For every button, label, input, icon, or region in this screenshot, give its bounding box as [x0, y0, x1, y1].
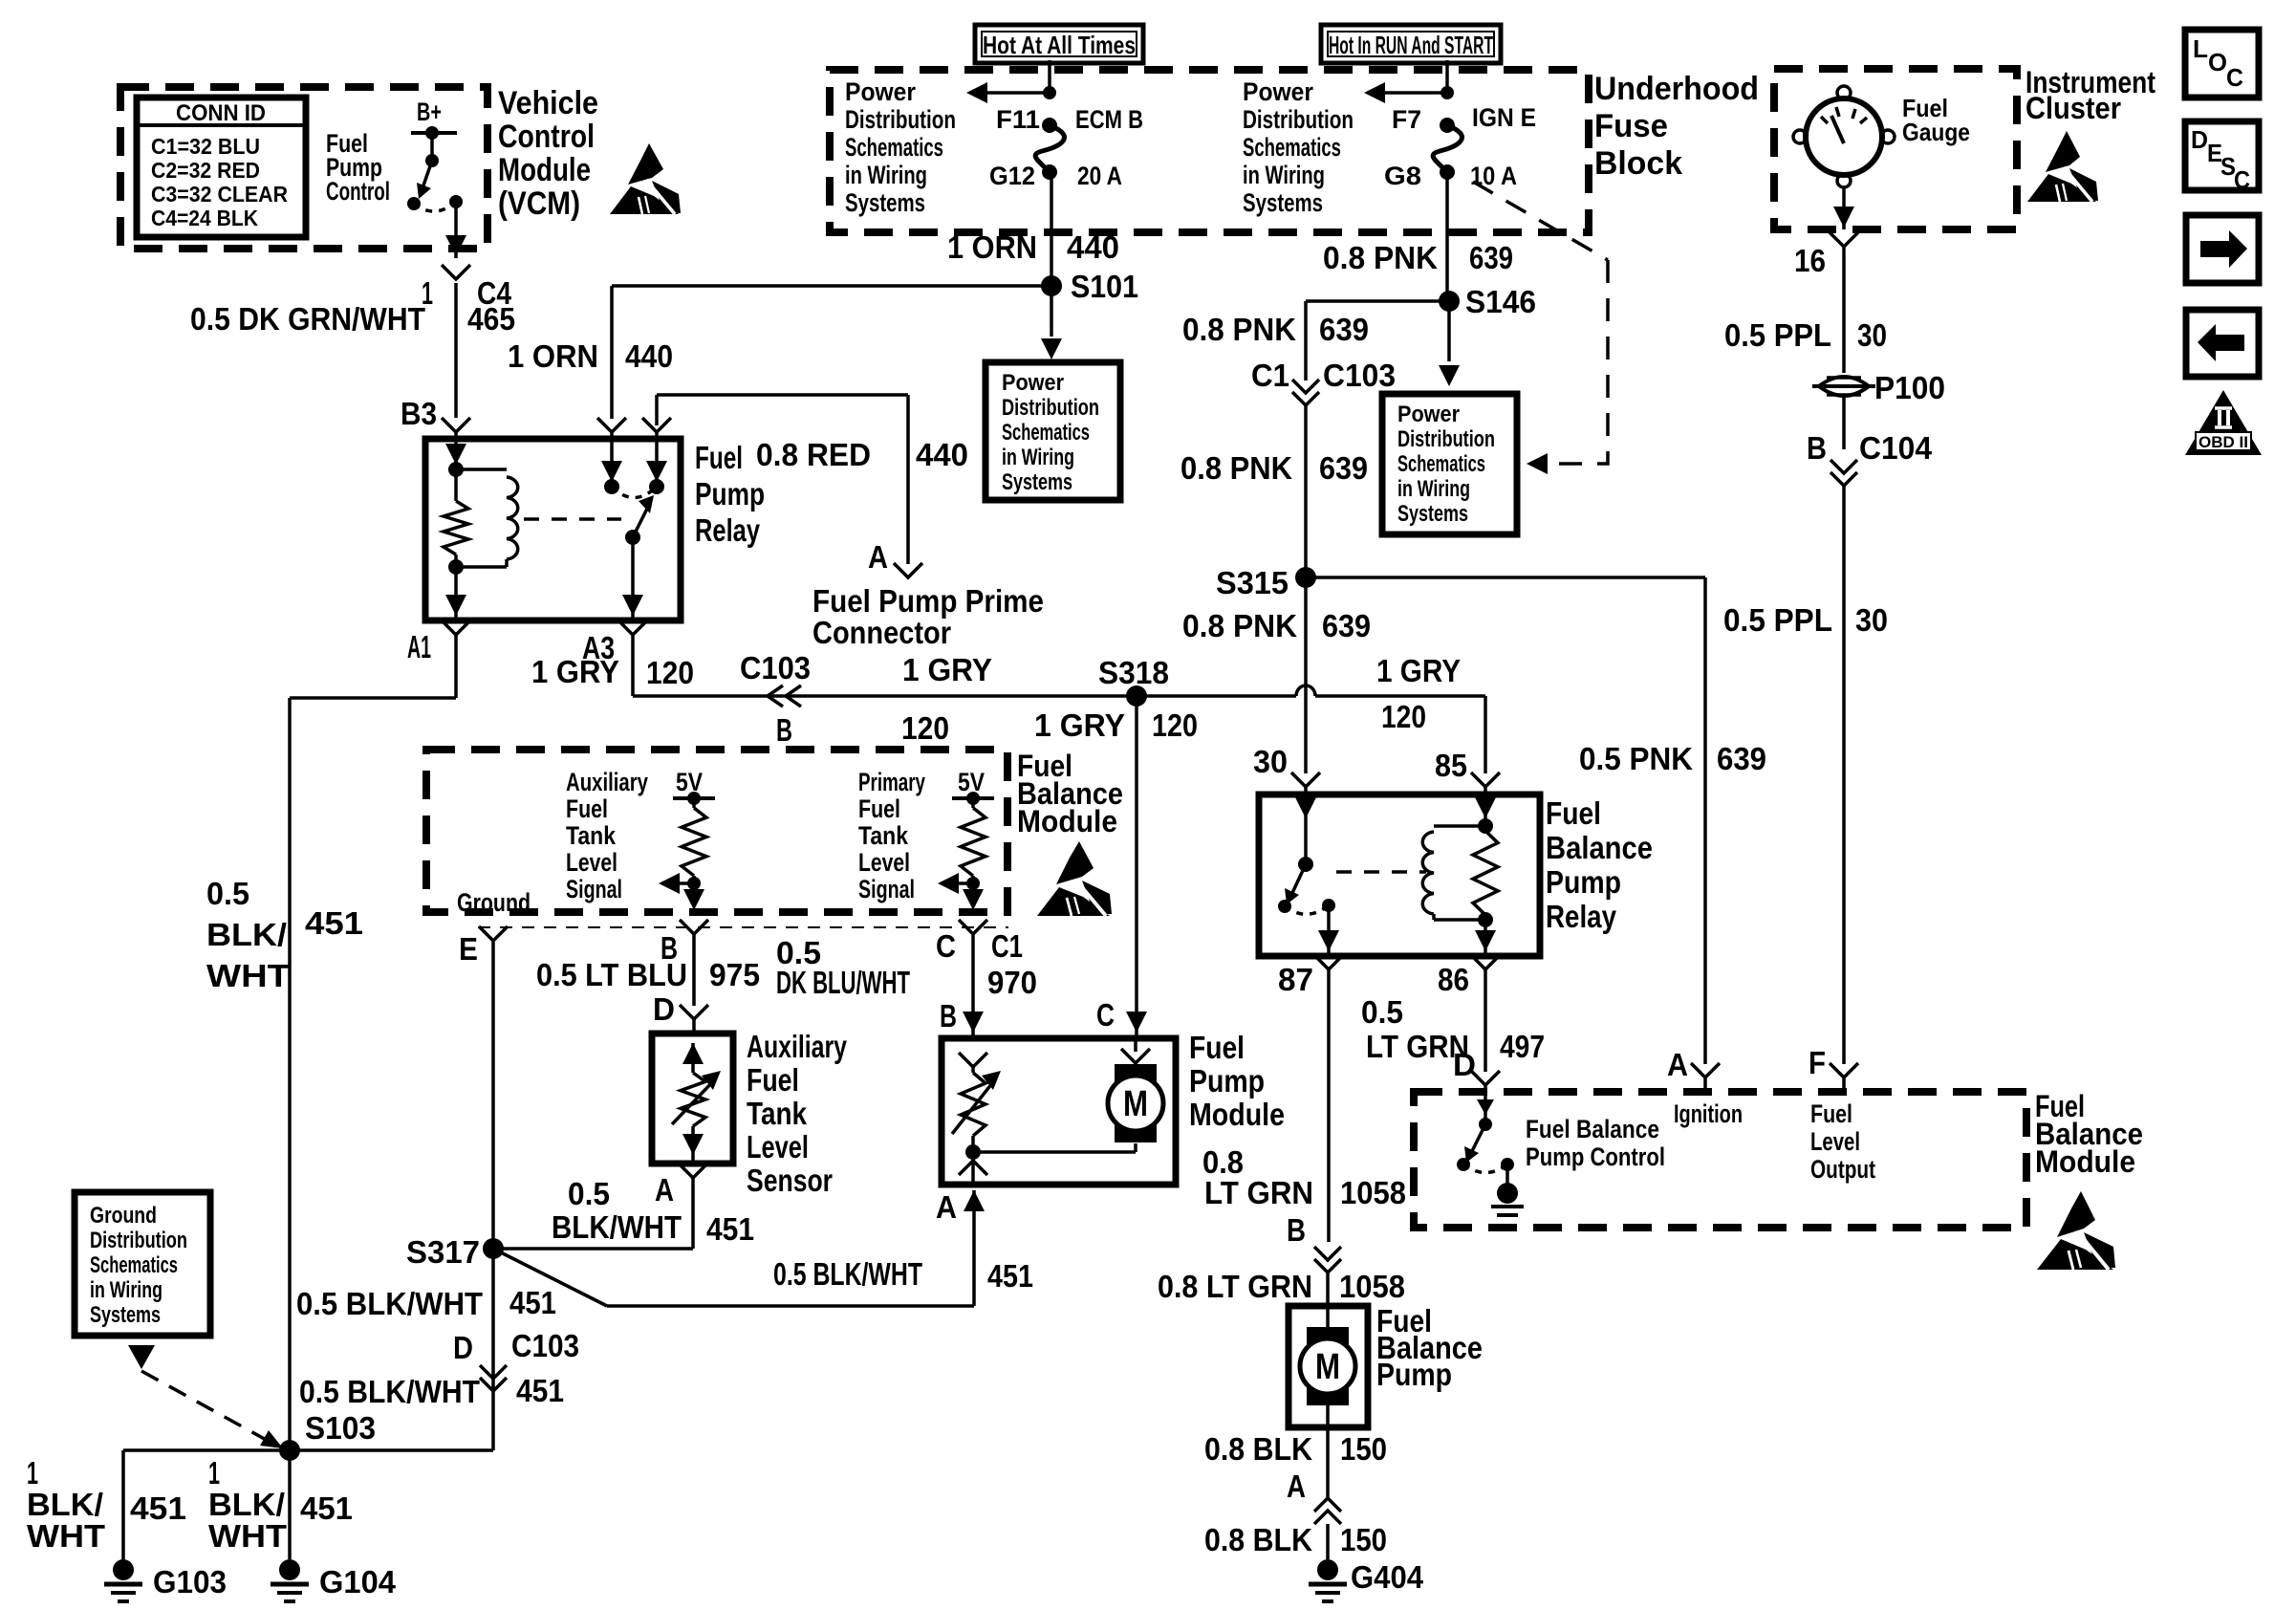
- fbp relay dashed link: [1336, 870, 1426, 874]
- wire label 1 BLK/WHT 451 (G103): [27, 1455, 186, 1554]
- wire label 0.8 PNK 639 (upper): [1182, 312, 1369, 347]
- svg-text:Tank: Tank: [566, 821, 617, 850]
- svg-text:Auxiliary: Auxiliary: [747, 1029, 847, 1064]
- svg-text:B: B: [1807, 430, 1827, 466]
- svg-text:BLK/: BLK/: [206, 917, 287, 952]
- inline connector C103 chevrons: [768, 685, 801, 707]
- svg-text:Distribution: Distribution: [1243, 105, 1354, 134]
- svg-text:1 ORN: 1 ORN: [508, 338, 598, 374]
- svg-text:5V: 5V: [676, 768, 703, 796]
- svg-text:1 GRY: 1 GRY: [1376, 653, 1461, 688]
- svg-text:WHT: WHT: [206, 958, 290, 993]
- svg-text:Block: Block: [1594, 145, 1682, 182]
- svg-text:Primary: Primary: [858, 768, 925, 796]
- svg-text:639: 639: [1322, 608, 1371, 643]
- svg-text:B: B: [940, 998, 957, 1033]
- power distribution ref text right: [1397, 402, 1495, 527]
- svg-text:Fuel: Fuel: [566, 794, 608, 823]
- svg-text:Schematics: Schematics: [1243, 133, 1341, 162]
- wire label 0.5 LT BLU 975: [536, 957, 760, 992]
- label pin 85: [1435, 748, 1467, 783]
- splice S315: [1216, 565, 1316, 600]
- svg-text:Underhood: Underhood: [1594, 71, 1759, 107]
- svg-text:Connector: Connector: [812, 615, 951, 650]
- svg-text:LT GRN: LT GRN: [1204, 1175, 1313, 1210]
- svg-text:C: C: [1096, 997, 1115, 1033]
- label B (fbp): [1287, 1212, 1306, 1248]
- svg-text:Distribution: Distribution: [1397, 426, 1495, 452]
- svg-text:Schematics: Schematics: [845, 133, 943, 162]
- svg-text:Relay: Relay: [695, 512, 760, 548]
- svg-text:Control: Control: [326, 177, 390, 206]
- ground distribution box: [75, 1192, 210, 1336]
- wire S103 to G103: [123, 1450, 290, 1559]
- fpm sender branch: [952, 1053, 1001, 1185]
- svg-text:0.8 PNK: 0.8 PNK: [1323, 240, 1438, 275]
- svg-text:A: A: [936, 1189, 957, 1225]
- svg-text:Tank: Tank: [858, 821, 909, 850]
- svg-text:497: 497: [1500, 1029, 1545, 1064]
- fuel balance pump label: [1376, 1303, 1483, 1392]
- svg-text:Schematics: Schematics: [1002, 420, 1090, 446]
- svg-text:B: B: [1287, 1212, 1306, 1248]
- svg-text:Power: Power: [1397, 402, 1460, 427]
- svg-text:Systems: Systems: [1002, 469, 1072, 495]
- svg-text:451: 451: [706, 1211, 754, 1247]
- relay pin 85 entry: [646, 439, 667, 494]
- svg-text:A: A: [868, 539, 888, 575]
- fbm2 switch label: [1526, 1115, 1665, 1171]
- wire label 0.5 BLK/WHT 451 (aux): [552, 1176, 754, 1247]
- ground distribution text: [90, 1203, 187, 1328]
- svg-text:S315: S315: [1216, 565, 1289, 600]
- svg-text:A: A: [1287, 1469, 1306, 1504]
- svg-text:F: F: [1809, 1045, 1826, 1080]
- svg-text:465: 465: [467, 301, 515, 337]
- svg-text:0.8 PNK: 0.8 PNK: [1182, 608, 1297, 643]
- wire label 1 BLK/WHT 451 (G104): [208, 1455, 353, 1554]
- ground G103: [104, 1559, 227, 1601]
- relay coil node top: [448, 462, 464, 477]
- label F (fuel level): [1809, 1045, 1826, 1080]
- svg-text:Pump: Pump: [695, 476, 765, 511]
- svg-text:C: C: [936, 928, 956, 964]
- svg-text:16: 16: [1794, 243, 1826, 278]
- CONN ID rows: [151, 134, 288, 230]
- wire S317 down to S103: [290, 1249, 507, 1450]
- svg-text:0.5 BLK/WHT: 0.5 BLK/WHT: [773, 1256, 922, 1292]
- wire label 1 ORN 440 (relay): [508, 338, 673, 374]
- svg-text:120: 120: [901, 710, 949, 746]
- wire fuel gauge down: [1830, 187, 1858, 373]
- svg-text:C103: C103: [1323, 358, 1396, 393]
- power distribution text right: [1243, 77, 1354, 217]
- svg-text:1 ORN: 1 ORN: [947, 229, 1037, 265]
- wire S101 to power dist box: [1041, 286, 1062, 359]
- connector label 1 C4: [422, 275, 512, 311]
- svg-text:1058: 1058: [1339, 1269, 1405, 1304]
- svg-text:Power: Power: [1002, 370, 1064, 396]
- svg-text:M: M: [1315, 1347, 1340, 1387]
- RED wire to prime connector: [642, 395, 922, 577]
- connector label B3: [401, 396, 437, 431]
- fbp inline connector: [1314, 1247, 1341, 1306]
- svg-text:Systems: Systems: [1243, 188, 1323, 217]
- svg-text:451: 451: [516, 1373, 564, 1408]
- svg-text:in Wiring: in Wiring: [90, 1277, 162, 1303]
- svg-text:0.8 PNK: 0.8 PNK: [1182, 312, 1296, 347]
- wire label 0.5 PNK 639: [1579, 741, 1766, 776]
- power distribution ref box right: [1382, 394, 1517, 534]
- instrument cluster ESD: [2027, 131, 2098, 202]
- svg-text:D: D: [2191, 125, 2208, 154]
- fuel balance pump relay box: [1259, 794, 1540, 956]
- svg-text:Level: Level: [858, 848, 910, 877]
- wire label 0.8 PNK 639 (mid): [1180, 450, 1368, 486]
- svg-text:C2=32 RED: C2=32 RED: [151, 158, 260, 183]
- relay pin B3 entry: [445, 439, 466, 469]
- fbm ESD symbol: [1037, 841, 1112, 916]
- fuel gauge label: [1902, 94, 1970, 146]
- wire A1 to S103: [290, 620, 470, 1450]
- svg-text:BLK/WHT: BLK/WHT: [552, 1209, 682, 1245]
- icon OBD II triangle: [2185, 390, 2262, 455]
- fpm motor: [973, 1038, 1163, 1152]
- svg-text:B+: B+: [417, 98, 442, 126]
- svg-text:0.5 LT BLU: 0.5 LT BLU: [536, 957, 687, 992]
- relay switch exit: [622, 537, 643, 620]
- svg-text:87: 87: [1278, 962, 1313, 997]
- svg-text:0.5 PNK: 0.5 PNK: [1579, 741, 1693, 776]
- svg-text:Distribution: Distribution: [845, 105, 956, 134]
- splice S317: [406, 1234, 504, 1270]
- svg-text:D: D: [1453, 1047, 1476, 1082]
- label C C1 (sender): [936, 928, 1023, 964]
- svg-text:1 GRY: 1 GRY: [1034, 707, 1125, 743]
- primary level resistor: [952, 792, 994, 890]
- svg-text:Module: Module: [2035, 1144, 2135, 1179]
- fbp pin 86 connector: [1438, 955, 1500, 1096]
- svg-text:Pump: Pump: [1546, 864, 1621, 900]
- label A prime connector: [868, 539, 888, 575]
- svg-text:Auxiliary: Auxiliary: [566, 768, 648, 796]
- fuel gauge: [1793, 86, 1895, 187]
- primary signal arrow: [938, 873, 973, 894]
- wire label 0.8 BLK 150 (lower): [1204, 1522, 1387, 1557]
- CONN ID table: [137, 98, 306, 237]
- svg-text:S146: S146: [1465, 284, 1536, 319]
- VCM label Fuel Pump Control: [326, 129, 390, 206]
- svg-text:0.8 LT GRN: 0.8 LT GRN: [1158, 1269, 1312, 1304]
- wire label 0.5 BLK/WHT 451 (below C103): [299, 1373, 564, 1409]
- svg-text:C4=24 BLK: C4=24 BLK: [151, 206, 258, 230]
- svg-text:in Wiring: in Wiring: [1397, 476, 1470, 502]
- svg-text:Hot In RUN And START: Hot In RUN And START: [1329, 31, 1493, 59]
- wire label 0.5 BLK/WHT 451 (S317): [296, 1285, 556, 1321]
- CONN ID header: [176, 100, 266, 126]
- pass-through P100: [1812, 370, 1945, 405]
- fbm2 pump control switch: [1457, 1096, 1524, 1215]
- svg-text:120: 120: [646, 655, 694, 690]
- wire VCM fuel pump control to B3: [442, 202, 470, 439]
- label 5V primary: [958, 768, 985, 796]
- svg-text:in Wiring: in Wiring: [845, 161, 927, 189]
- label C (pump module): [1096, 997, 1115, 1033]
- svg-text:S318: S318: [1098, 655, 1169, 690]
- connector label D C103 (bottom): [453, 1328, 579, 1365]
- instrument cluster label: [2025, 65, 2155, 125]
- svg-text:Distribution: Distribution: [90, 1228, 187, 1253]
- fbp relay pin 30 wire: [1295, 794, 1316, 872]
- svg-text:Systems: Systems: [90, 1302, 161, 1328]
- icon prev arrow box: [2186, 310, 2259, 377]
- wire label 0.8 BLK 150 (upper): [1204, 1431, 1387, 1467]
- svg-text:Gauge: Gauge: [1902, 118, 1970, 146]
- svg-text:0.5: 0.5: [206, 876, 249, 911]
- fbp relay resistor: [1473, 826, 1498, 927]
- svg-text:440: 440: [1067, 229, 1119, 265]
- svg-text:Pump Control: Pump Control: [1526, 1142, 1665, 1171]
- relay switch dashed arc: [612, 487, 657, 498]
- relay coil node bottom: [448, 559, 464, 575]
- label B (C103): [776, 712, 792, 748]
- fbp pin 87 connector: [1278, 955, 1343, 1242]
- wire IGN E fuse to S146: [1445, 172, 1449, 301]
- svg-text:451: 451: [130, 1490, 186, 1526]
- aux sensor internals: [672, 1043, 721, 1164]
- ground G404: [1309, 1559, 1424, 1601]
- wire S315 to pin 30: [1291, 577, 1320, 794]
- fuse F11 labels: [989, 105, 1143, 190]
- svg-text:639: 639: [1319, 450, 1368, 486]
- wire S146 left branch to C103: [1292, 301, 1449, 577]
- aux resistor exit wire: [680, 883, 708, 1033]
- svg-text:B: B: [776, 712, 792, 748]
- power distribution ref text left: [1002, 370, 1099, 495]
- relay resistor: [444, 469, 468, 567]
- svg-text:BLK/: BLK/: [27, 1487, 103, 1522]
- svg-text:440: 440: [916, 437, 968, 472]
- svg-text:Fuel Pump Prime: Fuel Pump Prime: [812, 583, 1044, 619]
- aux sensor label: [747, 1029, 847, 1198]
- wire label 1 GRY 120 (middle): [901, 652, 992, 746]
- svg-text:451: 451: [509, 1285, 556, 1320]
- svg-text:0.8 PNK: 0.8 PNK: [1180, 450, 1292, 486]
- svg-text:G12: G12: [989, 162, 1035, 190]
- wire label 0.8 LT GRN 1058 (lower): [1158, 1269, 1405, 1304]
- fuel pump relay box: [425, 439, 681, 620]
- power distribution text left: [845, 77, 956, 217]
- svg-text:C1=32 BLU: C1=32 BLU: [151, 134, 260, 159]
- connector label A3: [582, 630, 615, 665]
- ground dist arrow: [128, 1345, 155, 1369]
- svg-text:Level: Level: [566, 848, 617, 877]
- svg-text:86: 86: [1438, 962, 1469, 997]
- fbp pin A wire: [1314, 1398, 1341, 1559]
- svg-text:Fuel: Fuel: [1189, 1030, 1245, 1065]
- svg-text:C1: C1: [991, 928, 1023, 964]
- relay coil branch: [456, 469, 518, 567]
- svg-text:Module: Module: [1189, 1097, 1285, 1132]
- svg-text:CONN ID: CONN ID: [176, 100, 266, 126]
- svg-text:Fuel: Fuel: [858, 794, 900, 823]
- svg-text:Fuel: Fuel: [747, 1062, 799, 1098]
- fbp relay coil: [1422, 826, 1485, 920]
- svg-text:Pump: Pump: [1189, 1063, 1265, 1099]
- label B (sender): [661, 930, 678, 966]
- fbp relay coil exit: [1475, 920, 1496, 956]
- aux sensor pin A wire: [493, 1164, 707, 1249]
- VCM labels: [498, 85, 598, 222]
- svg-text:120: 120: [1381, 699, 1426, 734]
- S317 diagonal wire: [493, 1249, 607, 1306]
- svg-text:Systems: Systems: [845, 188, 925, 217]
- fuse F11 ECM B: [966, 60, 1065, 180]
- svg-text:E: E: [459, 931, 478, 967]
- label 16: [1794, 243, 1826, 278]
- VCM module dashed box: [120, 87, 487, 249]
- svg-text:Ignition: Ignition: [1674, 1099, 1743, 1128]
- svg-text:451: 451: [300, 1490, 353, 1526]
- B+ terminal: [411, 126, 457, 167]
- svg-text:Distribution: Distribution: [1002, 395, 1099, 421]
- fbm label: [1017, 749, 1123, 838]
- svg-text:ECM B: ECM B: [1075, 105, 1143, 134]
- svg-text:0.5: 0.5: [1361, 994, 1403, 1030]
- svg-text:970: 970: [987, 965, 1037, 1000]
- wire label 0.8 RED 440: [756, 437, 968, 472]
- svg-text:0.8 BLK: 0.8 BLK: [1204, 1522, 1312, 1557]
- wire P100 down: [1830, 397, 1858, 1092]
- svg-text:Power: Power: [845, 77, 916, 106]
- icon next arrow box: [2186, 215, 2259, 283]
- relay pin A1 exit: [445, 567, 466, 620]
- connector label C103 left: [740, 650, 811, 685]
- relay pin 86 entry: [601, 439, 622, 494]
- hot at all times label: [983, 31, 1136, 59]
- underhood fuse block label: [1594, 71, 1759, 182]
- svg-text:OBD II: OBD II: [2199, 433, 2248, 451]
- svg-text:Module: Module: [498, 152, 591, 188]
- svg-text:BLK/: BLK/: [208, 1487, 285, 1522]
- fuel balance module dashed box: [426, 750, 1007, 912]
- primary resistor exit wire: [959, 883, 987, 1038]
- connector label B C104: [1807, 430, 1933, 466]
- label pin 30: [1253, 744, 1288, 779]
- svg-text:C103: C103: [740, 650, 811, 685]
- svg-text:Balance: Balance: [1546, 830, 1653, 865]
- wire label 0.5 BLK/WHT 451 (left): [206, 876, 363, 993]
- hot at all times box: [975, 25, 1143, 63]
- aux tank level signal text: [566, 768, 648, 903]
- wire label 0.5 PPL 30 (lower): [1723, 602, 1888, 638]
- hot in run and start box: [1321, 25, 1501, 63]
- svg-text:G404: G404: [1351, 1559, 1424, 1595]
- svg-text:0.5 BLK/WHT: 0.5 BLK/WHT: [299, 1374, 480, 1409]
- hot in run and start label: [1329, 31, 1493, 59]
- fbp relay coil entry: [1475, 794, 1496, 834]
- svg-text:C: C: [2234, 165, 2250, 194]
- svg-text:D: D: [453, 1330, 473, 1365]
- svg-text:0.5 DK GRN/WHT: 0.5 DK GRN/WHT: [190, 301, 425, 337]
- svg-text:975: 975: [709, 957, 760, 992]
- svg-text:A1: A1: [407, 629, 431, 664]
- fuse F7 IGN E: [1364, 60, 1462, 180]
- svg-text:1 GRY: 1 GRY: [531, 654, 619, 689]
- aux fuel tank level sensor box: [652, 1033, 733, 1164]
- svg-text:L: L: [2193, 34, 2208, 63]
- fuel pump control switch: [407, 161, 463, 211]
- svg-text:F11: F11: [996, 105, 1040, 134]
- fuel pump module box: [942, 1038, 1176, 1185]
- svg-text:F7: F7: [1392, 105, 1421, 134]
- svg-text:Vehicle: Vehicle: [498, 85, 598, 121]
- power distribution ref box left: [986, 362, 1120, 500]
- svg-text:(VCM): (VCM): [498, 185, 580, 222]
- fuel pump module label: [1189, 1030, 1285, 1132]
- fuel pump prime connector label: [812, 583, 1044, 650]
- primary tank level signal text: [858, 768, 925, 903]
- splice S146: [1439, 284, 1536, 319]
- wire label 0.8 PNK 639 (lower): [1182, 608, 1371, 643]
- aux level resistor: [673, 792, 715, 890]
- svg-text:C: C: [2226, 63, 2243, 92]
- label 5V aux: [676, 768, 703, 796]
- wire label 1 GRY 120 (S318 down): [1034, 707, 1198, 743]
- svg-text:DK BLU/WHT: DK BLU/WHT: [776, 965, 910, 1000]
- svg-text:Schematics: Schematics: [1397, 451, 1485, 477]
- svg-text:639: 639: [1717, 741, 1766, 776]
- instrument cluster dashed box: [1774, 69, 2017, 229]
- svg-text:Power: Power: [1243, 77, 1313, 106]
- svg-text:30: 30: [1855, 602, 1888, 638]
- wire label 0.5 DK BLU/WHT 970: [776, 935, 1037, 1000]
- underhood fuse block dashed box: [830, 70, 1589, 232]
- svg-text:A: A: [655, 1172, 674, 1207]
- svg-text:0.8 RED: 0.8 RED: [756, 437, 871, 472]
- svg-text:Fuel: Fuel: [695, 440, 743, 475]
- wire label 0.5 BLK/WHT 451 (fpm): [773, 1256, 1033, 1294]
- svg-text:A: A: [1667, 1047, 1688, 1082]
- icon DESC box: [2185, 121, 2259, 194]
- svg-text:Relay: Relay: [1546, 899, 1617, 934]
- svg-text:G104: G104: [319, 1564, 397, 1599]
- svg-text:639: 639: [1469, 240, 1513, 275]
- wire label 0.5 DK GRN/WHT 465: [190, 301, 515, 337]
- svg-text:Hot At All Times: Hot At All Times: [983, 31, 1136, 59]
- svg-text:150: 150: [1340, 1522, 1387, 1557]
- svg-text:639: 639: [1319, 312, 1369, 347]
- svg-text:30: 30: [1253, 744, 1288, 779]
- svg-text:0.8 BLK: 0.8 BLK: [1204, 1431, 1312, 1467]
- svg-text:120: 120: [1152, 707, 1198, 743]
- VCM ESD symbol: [610, 143, 681, 214]
- splice S101: [1041, 269, 1138, 304]
- connector label C1 C103: [1251, 358, 1396, 393]
- sender connector dashed line: [478, 926, 1008, 928]
- wire A3 to S318 to relay85: [618, 620, 1500, 794]
- wire S146 to power dist box: [1439, 301, 1460, 386]
- svg-text:451: 451: [987, 1258, 1033, 1294]
- svg-text:Fuel: Fuel: [1810, 1099, 1852, 1128]
- svg-text:451: 451: [305, 905, 363, 941]
- wire label 1 ORN 440 (S101): [947, 229, 1119, 265]
- ground dist dashed arrow: [141, 1371, 283, 1448]
- svg-text:B3: B3: [401, 396, 437, 431]
- fbp motor: [1300, 1306, 1355, 1405]
- svg-text:0.5 BLK/WHT: 0.5 BLK/WHT: [296, 1286, 483, 1321]
- svg-text:O: O: [2208, 48, 2227, 76]
